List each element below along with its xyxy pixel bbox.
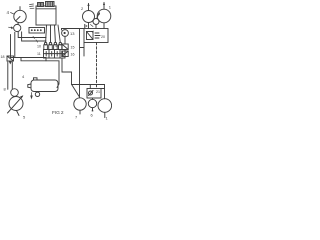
- left bus wire b: [14, 32, 16, 57]
- svg-text:18: 18: [1, 55, 5, 59]
- left bus wire d with corner to dashed run: [22, 32, 46, 41]
- leader arrow to pump 4: [11, 13, 15, 15]
- tick marks on dashed run: [33, 36, 38, 42]
- tank drain plug: [35, 92, 39, 96]
- pump 8 main circle: [9, 97, 23, 111]
- pump 8 outlet: [17, 111, 20, 116]
- diagonal branch to motor 7: [72, 85, 79, 97]
- svg-text:2: 2: [81, 6, 84, 11]
- svg-text:21: 21: [96, 90, 100, 94]
- drop from valves: [64, 50, 66, 52]
- return header upper: [11, 58, 47, 61]
- pump 8 small circle: [11, 89, 19, 97]
- control box 20 (top right): [84, 29, 108, 43]
- suction line left b: [11, 62, 13, 89]
- dashed pilot line: [96, 43, 98, 88]
- valve manifold 12: [44, 50, 66, 59]
- svg-text:4: 4: [7, 10, 10, 15]
- tank left fitting: [28, 84, 31, 88]
- terminal strip: [29, 28, 45, 34]
- left bus wire a: [10, 35, 12, 58]
- svg-text:20: 20: [101, 35, 105, 39]
- pump 8 arrow: [8, 95, 24, 113]
- drain arrow: [31, 93, 33, 99]
- component on engine top right: [46, 2, 55, 7]
- solenoid coil 2: [49, 42, 53, 49]
- solenoid coil 3: [54, 42, 58, 49]
- solenoid coil 1: [44, 42, 48, 49]
- svg-text:16: 16: [71, 53, 75, 57]
- component on engine top left: [38, 3, 44, 7]
- svg-text:5: 5: [23, 115, 26, 120]
- svg-text:7: 7: [75, 115, 78, 120]
- wire from engine to solenoid 2: [50, 25, 52, 43]
- svg-text:1: 1: [109, 5, 112, 10]
- check valve marks under pump 2: [85, 25, 94, 28]
- cross line upper right: [62, 28, 85, 30]
- pump 2 (top right left circle): [83, 3, 95, 29]
- svg-text:FIG 2: FIG 2: [52, 110, 64, 116]
- gauge 13: [62, 30, 69, 37]
- left bus wire c with corner to dashed run: [18, 32, 46, 38]
- suction line left a: [7, 62, 9, 89]
- svg-text:4: 4: [22, 74, 25, 79]
- svg-text:14: 14: [55, 44, 59, 48]
- wire from engine to solenoid 3: [54, 25, 57, 43]
- engine box E: [36, 6, 56, 25]
- valve 21 box: [87, 89, 105, 99]
- long vertical feed line: [79, 29, 81, 98]
- motor 7: [74, 98, 86, 114]
- small pump 5 (between): [93, 12, 100, 29]
- solenoid coil 4: [59, 42, 63, 49]
- motor 1b: [98, 99, 112, 118]
- svg-text:15: 15: [71, 46, 75, 50]
- wire from engine to gauge column: [58, 25, 60, 43]
- relief valve 18: [7, 56, 14, 64]
- pilot line to gauge: [62, 29, 66, 45]
- tank filler cap: [34, 78, 38, 80]
- motor 6: [88, 98, 96, 111]
- svg-text:13: 13: [70, 31, 75, 36]
- svg-text:10: 10: [37, 45, 41, 49]
- hatch marks 11 (left of engine box): [30, 4, 35, 9]
- svg-text:11: 11: [37, 52, 41, 56]
- staircase drain pipe: [62, 58, 105, 99]
- valve 16: [62, 51, 68, 57]
- svg-text:8: 8: [4, 87, 7, 92]
- tank 9: [31, 80, 58, 92]
- pump 1 (top right right circle): [97, 2, 111, 29]
- valve 15: [62, 44, 68, 50]
- leader arrow 3: [9, 27, 13, 29]
- svg-text:1: 1: [106, 116, 109, 121]
- svg-text:6: 6: [91, 113, 94, 118]
- wire from engine to solenoid 1: [45, 25, 48, 43]
- pump small circle 3: [14, 22, 21, 31]
- pump P4 (top-left motor circle): [14, 7, 26, 23]
- return header lower to tank riser: [21, 58, 59, 88]
- drop into valve 21: [89, 85, 91, 89]
- right bus stub: [80, 43, 84, 57]
